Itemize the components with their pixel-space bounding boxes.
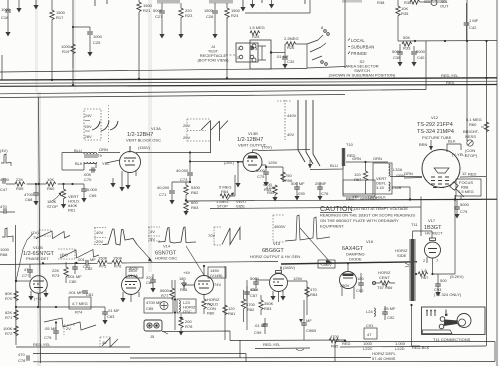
switch common wire xyxy=(307,44,345,68)
sync pulse waveform left xyxy=(2,228,13,242)
svg-text:C69: C69 xyxy=(89,193,97,198)
ground stub B xyxy=(271,0,273,4)
svg-text:+260V: +260V xyxy=(320,262,332,267)
svg-text:R23: R23 xyxy=(185,13,193,18)
svg-text:R73: R73 xyxy=(52,273,60,278)
T9 primary coil xyxy=(84,152,97,154)
svg-text:T11 CONNECTIONS: T11 CONNECTIONS xyxy=(433,337,471,342)
svg-text:C85: C85 xyxy=(146,306,154,311)
svg-text:ON THE 6BG6GT PLATE WITH ORDIN: ON THE 6BG6GT PLATE WITH ORDINARY xyxy=(320,218,399,223)
coil L32A xyxy=(389,164,391,176)
lead line to V10B xyxy=(16,234,33,282)
svg-text:BLU: BLU xyxy=(330,163,338,168)
J4 receptacle box xyxy=(236,43,258,62)
svg-text:C99: C99 xyxy=(254,330,262,335)
svg-text:20V: 20V xyxy=(183,135,190,140)
wire right border x497 xyxy=(496,0,498,366)
capacitor C71 xyxy=(171,182,173,200)
T11 tap arrows xyxy=(405,263,409,267)
svg-text:C70: C70 xyxy=(84,177,92,182)
svg-text:V13A: V13A xyxy=(151,126,161,131)
tube V16 damper xyxy=(340,272,357,289)
svg-text:125V: 125V xyxy=(293,276,303,281)
svg-text:470: 470 xyxy=(18,352,25,357)
svg-text:(25V): (25V) xyxy=(224,160,234,165)
svg-text:RED?: RED? xyxy=(346,196,357,201)
horiz hold pot R80 xyxy=(203,295,205,315)
svg-text:C38: C38 xyxy=(393,55,401,60)
svg-text:(70V): (70V) xyxy=(262,145,272,150)
svg-text:8V: 8V xyxy=(150,237,155,242)
bottom right section xyxy=(263,304,485,361)
svg-text:HORIZ OUTPUT & HV GEN: HORIZ OUTPUT & HV GEN xyxy=(250,254,300,259)
svg-text:HORIZ OSC: HORIZ OSC xyxy=(155,256,177,261)
resistor R81 xyxy=(223,305,227,315)
svg-text:R83: R83 xyxy=(264,306,272,311)
svg-text:2: 2 xyxy=(423,258,426,263)
svg-text:40,000: 40,000 xyxy=(176,168,189,173)
svg-text:4V: 4V xyxy=(102,340,107,345)
tube V17 xyxy=(425,242,441,258)
svg-text:C91: C91 xyxy=(366,323,374,328)
svg-text:24V: 24V xyxy=(85,113,92,118)
svg-text:R63: R63 xyxy=(191,205,199,210)
svg-text:C87: C87 xyxy=(250,293,258,298)
svg-text:V15: V15 xyxy=(273,241,281,246)
svg-text:L22D: L22D xyxy=(395,346,405,351)
T11 coil winding xyxy=(409,239,416,301)
wire mid horizontal y207 xyxy=(210,207,421,209)
svg-text:DIODE: DIODE xyxy=(349,257,362,262)
wire bus 3 xyxy=(0,85,497,87)
svg-text:C28: C28 xyxy=(206,14,214,19)
wire stub x19 xyxy=(18,0,20,8)
wire T10 to L32 xyxy=(346,161,388,163)
capacitor C69 xyxy=(71,183,73,185)
osc out circle xyxy=(431,0,437,6)
hosc waveform 2 dashed box xyxy=(148,227,160,241)
svg-text:R64: R64 xyxy=(221,189,229,194)
svg-text:C83: C83 xyxy=(107,314,115,319)
HV waveform dashed box xyxy=(273,215,284,242)
resistor R78 xyxy=(179,318,183,328)
deflection box top right xyxy=(343,180,375,196)
components top-left xyxy=(1,0,258,86)
svg-text:L32A: L32A xyxy=(393,167,403,172)
svg-text:GRN: GRN xyxy=(404,171,413,176)
svg-text:C88: C88 xyxy=(251,287,259,292)
V17 top cap xyxy=(430,238,436,241)
svg-text:C78: C78 xyxy=(18,358,26,363)
260V box xyxy=(318,260,335,268)
svg-text:40V: 40V xyxy=(96,230,103,235)
vert output sweep lines xyxy=(298,100,320,166)
CRT gun trapezoid xyxy=(434,168,449,173)
wire stub x107 xyxy=(106,0,108,4)
brightness pot circle xyxy=(467,140,473,146)
wire y170 to T10 xyxy=(310,150,343,170)
resistor R71 xyxy=(14,310,18,320)
T9 secondary coil xyxy=(84,162,97,164)
svg-text:STOP: STOP xyxy=(217,204,228,209)
switch wafer blades xyxy=(307,40,322,60)
wire stub x36 xyxy=(35,0,37,5)
ion trap diamond xyxy=(450,182,458,190)
wire bottom y358 xyxy=(130,357,371,360)
wire bottom y353 xyxy=(33,354,246,362)
svg-text:V10B: V10B xyxy=(33,245,43,250)
capacitor C75v xyxy=(263,172,269,174)
svg-text:10K: 10K xyxy=(47,177,54,182)
svg-text:R80: R80 xyxy=(207,311,215,316)
svg-text:.01 MF: .01 MF xyxy=(254,323,267,328)
junction at box right xyxy=(270,51,272,53)
svg-text:YEL: YEL xyxy=(102,161,110,166)
resistor R72 xyxy=(14,326,18,336)
wire left vertical x73 xyxy=(72,0,74,86)
svg-text:RED: RED xyxy=(446,80,455,85)
svg-text:12: 12 xyxy=(462,171,467,176)
resistor R77 xyxy=(170,288,174,298)
wire top y41 xyxy=(398,40,497,43)
svg-text:R19: R19 xyxy=(62,49,70,54)
svg-text:5000: 5000 xyxy=(392,49,402,54)
svg-text:.001: .001 xyxy=(77,257,86,262)
switch contacts circles xyxy=(324,30,327,33)
svg-text:R24: R24 xyxy=(231,13,239,18)
svg-text:RED-YEL: RED-YEL xyxy=(33,342,51,347)
tube V13B xyxy=(243,153,262,172)
svg-text:250V: 250V xyxy=(340,283,350,288)
svg-text:(V14B): (V14B) xyxy=(210,273,223,278)
svg-text:DO NOT ATTEMPT VOLTAGE: DO NOT ATTEMPT VOLTAGE xyxy=(354,206,408,211)
svg-text:R65: R65 xyxy=(331,344,339,349)
svg-text:BLK: BLK xyxy=(75,161,83,166)
svg-text:(340V): (340V) xyxy=(283,265,296,270)
bias box edge xyxy=(245,0,310,13)
svg-text:R82: R82 xyxy=(247,307,255,312)
tube V14B xyxy=(195,276,214,295)
svg-text:NESS: NESS xyxy=(465,134,476,139)
wire y182 xyxy=(172,178,190,182)
wire x190 down xyxy=(189,153,191,162)
lead line 2 xyxy=(186,246,204,275)
ion trap lead xyxy=(460,196,462,200)
145V box V14B xyxy=(208,267,226,278)
svg-text:C42: C42 xyxy=(469,25,477,30)
svg-text:.01 MF: .01 MF xyxy=(107,308,120,313)
svg-text:28V: 28V xyxy=(85,134,92,139)
capacitor C40 xyxy=(413,46,415,62)
svg-text:5000: 5000 xyxy=(416,49,426,54)
horiz osc section xyxy=(94,227,258,341)
AGC box xyxy=(250,40,271,69)
svg-text:PHASE DET: PHASE DET xyxy=(26,256,49,261)
tube V13A xyxy=(120,152,141,173)
small ramp waveform right xyxy=(100,337,112,347)
svg-text:READINGS ON THE 1B3GT OR SCOPE: READINGS ON THE 1B3GT OR SCOPE READINGS xyxy=(320,213,415,218)
wire V13A plate to top right xyxy=(130,146,211,153)
svg-text:R33: R33 xyxy=(403,46,411,51)
wire left vertical x139 xyxy=(138,12,140,80)
phase det waveform dashed box xyxy=(39,230,51,236)
junction y281 xyxy=(15,280,17,282)
resistor R59 xyxy=(15,182,25,186)
svg-text:(5.2KV): (5.2KV) xyxy=(450,274,464,279)
svg-text:C77: C77 xyxy=(22,273,30,278)
svg-text:RED: RED xyxy=(342,341,351,346)
svg-text:1500: 1500 xyxy=(204,8,214,13)
resistor R70 xyxy=(14,291,18,301)
capacitor C87 xyxy=(244,292,250,294)
wire y184 xyxy=(6,183,84,185)
wire damper lead y263 xyxy=(281,262,417,264)
tube V15 xyxy=(270,274,288,292)
R74 box 4.7 MEG xyxy=(69,297,91,309)
svg-text:5000: 5000 xyxy=(256,168,266,173)
J5 connector xyxy=(144,320,162,331)
wire T11 bottom down xyxy=(412,305,421,346)
svg-text:C40: C40 xyxy=(417,55,425,60)
lead line into damper xyxy=(300,228,330,262)
svg-text:(4V): (4V) xyxy=(0,148,8,153)
wire yoke box top y341 xyxy=(335,341,495,343)
capacitor C62 series xyxy=(86,260,88,266)
svg-text:RED: RED xyxy=(468,172,477,177)
svg-text:SIZE: SIZE xyxy=(236,204,245,209)
svg-text:MF: MF xyxy=(51,326,57,331)
tube V14A xyxy=(122,276,141,295)
svg-text:4700: 4700 xyxy=(330,334,340,339)
hosc waveform 3 dashed xyxy=(214,227,222,245)
capacitor C70 xyxy=(89,163,96,170)
svg-text:3.15: 3.15 xyxy=(376,185,385,190)
svg-text:47: 47 xyxy=(367,332,372,337)
svg-text:BLK: BLK xyxy=(448,139,456,144)
svg-text:4V: 4V xyxy=(150,229,155,234)
svg-text:RED-BLK: RED-BLK xyxy=(412,345,430,350)
svg-text:C73: C73 xyxy=(180,177,188,182)
phase waveform trace xyxy=(36,231,70,239)
svg-text:STOP): STOP) xyxy=(465,153,478,158)
yoke box sides xyxy=(240,340,495,362)
svg-text:R76: R76 xyxy=(114,264,122,269)
T11 conn base line xyxy=(423,330,453,334)
V16 pins xyxy=(342,264,354,300)
svg-text:7: 7 xyxy=(436,258,439,263)
resistor R17 xyxy=(50,10,54,20)
svg-text:500: 500 xyxy=(440,278,447,283)
wire stub x262 xyxy=(261,0,263,3)
svg-text:GRN: GRN xyxy=(99,147,108,152)
svg-text:150K: 150K xyxy=(98,256,108,261)
svg-text:20V: 20V xyxy=(96,239,103,244)
svg-text:8: 8 xyxy=(321,25,324,30)
ground below R23 xyxy=(178,34,183,39)
svg-text:6,000: 6,000 xyxy=(87,187,98,192)
T11 top wire to V17 xyxy=(413,231,433,239)
svg-text:GRN: GRN xyxy=(352,156,361,161)
capacitor C68 xyxy=(35,183,37,185)
vert switch blades xyxy=(201,121,228,131)
svg-text:47: 47 xyxy=(24,267,29,272)
junction dots on phase bus xyxy=(42,262,44,264)
svg-text:C81: C81 xyxy=(86,292,94,297)
svg-text:.039: .039 xyxy=(297,191,306,196)
T9 wiring left xyxy=(62,153,84,171)
resistor R65 bottom xyxy=(329,338,339,342)
vertical section (middle band) xyxy=(62,100,497,216)
svg-text:V13B: V13B xyxy=(248,131,258,136)
svg-text:OUT: OUT xyxy=(440,4,449,9)
hosc waveform 1 trace xyxy=(103,229,137,245)
T11 connections box xyxy=(422,307,486,335)
svg-text:R74: R74 xyxy=(75,310,83,315)
L32 box xyxy=(373,163,392,194)
svg-text:T9: T9 xyxy=(97,153,102,158)
resistor R19 xyxy=(72,26,74,68)
capacitor C32 xyxy=(284,53,286,65)
V15 cathode pins xyxy=(273,291,283,302)
svg-text:R38: R38 xyxy=(377,0,385,5)
capacitor C73 xyxy=(189,162,191,184)
svg-text:T11: T11 xyxy=(411,222,418,227)
svg-text:1000: 1000 xyxy=(93,34,103,39)
picture tube section xyxy=(396,115,489,200)
svg-text:5000: 5000 xyxy=(460,202,470,207)
wire bottom y340 xyxy=(230,339,345,342)
svg-text:70V: 70V xyxy=(208,233,215,238)
wire GRN to CRT xyxy=(390,176,422,178)
svg-text:C71: C71 xyxy=(159,192,167,197)
svg-text:C32: C32 xyxy=(287,59,295,64)
resistor R75 series xyxy=(98,260,108,264)
resistor R24 xyxy=(226,3,228,19)
svg-text:.05: .05 xyxy=(44,326,50,331)
wire y307 xyxy=(16,306,105,308)
svg-text:C25: C25 xyxy=(93,40,101,45)
T11 conn lamp shape xyxy=(457,314,471,328)
V13B wires xyxy=(253,150,311,153)
svg-text:22K: 22K xyxy=(16,177,23,182)
svg-text:C79: C79 xyxy=(44,335,52,340)
svg-text:150K: 150K xyxy=(113,256,123,261)
svg-text:R67: R67 xyxy=(421,275,429,280)
sync / phase det section xyxy=(0,148,139,363)
wire right x467 xyxy=(466,0,468,141)
svg-text:4.7 MEG: 4.7 MEG xyxy=(72,301,88,306)
svg-text:C82: C82 xyxy=(85,266,93,271)
svg-text:1000: 1000 xyxy=(1,7,11,12)
svg-text:R61: R61 xyxy=(68,208,76,213)
svg-text:C68: C68 xyxy=(25,197,33,202)
svg-text:RED-YEL: RED-YEL xyxy=(263,342,281,347)
svg-text:SIDE: SIDE xyxy=(397,253,407,258)
wire left vertical x227 xyxy=(226,18,228,79)
svg-text:500 MF: 500 MF xyxy=(291,181,305,186)
svg-text:C16: C16 xyxy=(1,15,9,20)
svg-text:R65: R65 xyxy=(264,187,272,192)
svg-text:T10: T10 xyxy=(346,142,354,147)
wire right x486 HV cage right xyxy=(486,41,488,346)
horiz output / HV section xyxy=(241,179,481,340)
svg-text:74V: 74V xyxy=(214,282,221,287)
svg-text:C75: C75 xyxy=(257,174,265,179)
wire stub x95 xyxy=(94,0,96,6)
svg-text:(BOTTOM VIEW): (BOTTOM VIEW) xyxy=(197,58,229,63)
svg-text:MF: MF xyxy=(306,318,312,323)
svg-text:V16: V16 xyxy=(366,239,374,244)
svg-text:T57 R66: T57 R66 xyxy=(377,285,393,290)
svg-text:C80: C80 xyxy=(69,279,77,284)
waveform dashed 440V xyxy=(284,100,286,140)
CRT right pin wire RED xyxy=(460,176,486,179)
svg-text:V12: V12 xyxy=(431,115,439,120)
wire bottom red-yel y347 xyxy=(16,346,486,349)
capacitor C80 xyxy=(72,267,78,269)
capacitor C28 xyxy=(214,3,216,34)
150V box V14A xyxy=(126,267,143,278)
svg-text:125V: 125V xyxy=(268,160,278,165)
wire left vertical x39 xyxy=(39,97,41,363)
wire left vertical x16 xyxy=(15,225,18,345)
resistor R35 xyxy=(397,0,399,41)
svg-text:VERT BLOCK OSC: VERT BLOCK OSC xyxy=(126,138,161,143)
capacitor C42 xyxy=(466,3,468,41)
CRT electrode dashes xyxy=(431,177,449,188)
wire left edge stub xyxy=(1,55,3,80)
vert hold pot R61 xyxy=(62,183,64,185)
wire stub x305 xyxy=(304,0,306,4)
svg-text:R62: R62 xyxy=(191,190,199,195)
wire right x455 mid xyxy=(455,195,457,200)
svg-text:25 MF: 25 MF xyxy=(315,181,327,186)
svg-text:C90: C90 xyxy=(356,288,364,293)
svg-text:5000: 5000 xyxy=(153,8,163,13)
L32 right wire xyxy=(392,187,410,200)
capacitor C99 xyxy=(262,324,268,326)
top edge component stubs xyxy=(95,0,305,12)
svg-text:GRN: GRN xyxy=(373,156,382,161)
svg-text:R78: R78 xyxy=(185,324,193,329)
svg-text:R21: R21 xyxy=(143,8,151,13)
resistor R56 xyxy=(266,167,283,182)
capacitor C47 edge xyxy=(3,178,5,184)
capacitor C16 xyxy=(7,0,9,32)
svg-text:C75: C75 xyxy=(460,209,468,214)
ground stub A xyxy=(252,0,254,4)
wire area-switch vertical x345 xyxy=(344,0,346,68)
svg-text:40,000: 40,000 xyxy=(157,185,170,190)
arrow on damper bus xyxy=(326,260,332,265)
capacitor C83 xyxy=(102,312,108,314)
HV waveform trace xyxy=(285,215,330,241)
V15 HV lead dark xyxy=(280,267,282,270)
junction left of V13B xyxy=(237,161,239,163)
wire T9 to V13A xyxy=(98,153,120,164)
svg-text:C96B: C96B xyxy=(306,328,316,333)
V15 right 125V xyxy=(288,281,308,315)
wire B+ bus dark xyxy=(0,78,497,80)
svg-text:R60: R60 xyxy=(469,122,477,127)
svg-text:(+1): (+1) xyxy=(34,296,42,301)
svg-text:20V: 20V xyxy=(85,124,92,129)
wire bus top thin xyxy=(0,69,307,73)
capacitor C38 xyxy=(399,44,401,62)
svg-text:LOCAL: LOCAL xyxy=(351,38,365,43)
CRT top lead xyxy=(430,140,432,150)
ground below C28 xyxy=(212,34,217,39)
